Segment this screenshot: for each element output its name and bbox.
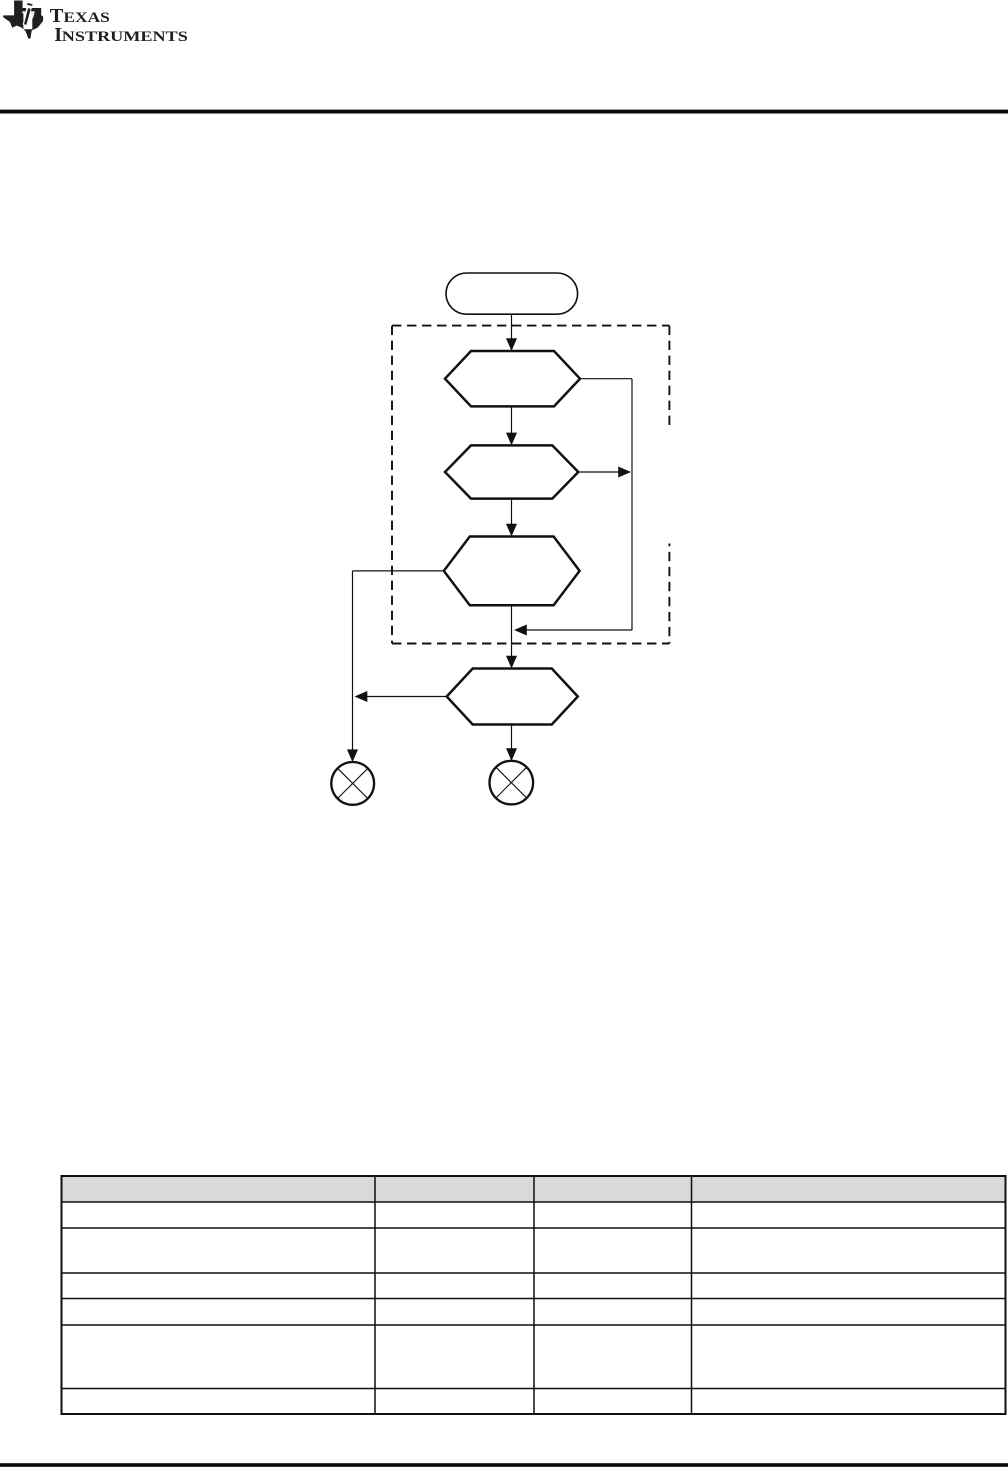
svg-text:NSTRUMENTS: NSTRUMENTS <box>62 29 188 45</box>
svg-text:EXAS: EXAS <box>64 10 110 26</box>
